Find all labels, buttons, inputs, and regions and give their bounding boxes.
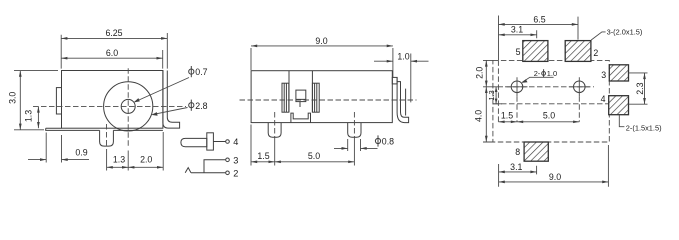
- right rail view2: [312, 83, 319, 112]
- pin B centerline: [353, 112, 355, 141]
- dim 6.25: [61, 28, 167, 69]
- center block view2: [296, 90, 306, 107]
- internal vertical left view2: [288, 71, 290, 113]
- top right tab view2: [392, 77, 397, 84]
- dim 9.0 bottom: [499, 145, 609, 187]
- svg-text:2.0: 2.0: [140, 154, 152, 164]
- svg-text:3.1: 3.1: [511, 25, 523, 35]
- right bracket view2: [397, 77, 409, 122]
- dim 4.0 left: [473, 87, 493, 142]
- svg-text:3-(2.0x1.5): 3-(2.0x1.5): [607, 28, 643, 37]
- pad 2: [565, 41, 591, 62]
- bottom flange view1: [46, 128, 163, 130]
- svg-text:0.8: 0.8: [382, 137, 394, 147]
- body outline view2: [251, 71, 392, 123]
- svg-text:3.0: 3.0: [8, 92, 18, 104]
- svg-text:1.0: 1.0: [547, 69, 557, 78]
- svg-text:2.3: 2.3: [635, 82, 645, 94]
- dim 6.5: [499, 14, 579, 60]
- label 3-(2.0x1.5) with leader: [591, 28, 642, 40]
- svg-text:0.9: 0.9: [75, 148, 87, 158]
- centerline horizontal view2: [240, 99, 417, 101]
- pin B view2: [348, 123, 361, 138]
- svg-text:1.3: 1.3: [487, 90, 496, 100]
- svg-text:1.5: 1.5: [501, 110, 513, 120]
- pad 3: [609, 65, 628, 81]
- center pin circle phi0.7: [121, 99, 135, 113]
- dim 3.1 top: [499, 25, 537, 39]
- centerline horizontal view1: [33, 105, 186, 107]
- svg-text:2-(1.5x1.5): 2-(1.5x1.5): [626, 123, 662, 132]
- pad4 centerline dashed: [493, 103, 609, 105]
- right bracket view1: [163, 71, 180, 129]
- pin centerline view1: [106, 124, 108, 148]
- pin 2 sleeve contact: [185, 168, 238, 179]
- barrel circle phi2.8: [104, 82, 153, 131]
- left tab view1: [56, 88, 61, 114]
- svg-text:2: 2: [593, 48, 598, 58]
- svg-text:6.0: 6.0: [106, 48, 118, 58]
- dim 0.9: [28, 133, 89, 163]
- footprint dashed outline: [493, 60, 609, 142]
- hole 2: [569, 77, 590, 96]
- svg-text:2.8: 2.8: [195, 101, 207, 111]
- centerline vertical view1: [127, 68, 129, 148]
- svg-text:6.5: 6.5: [533, 14, 545, 24]
- svg-text:2: 2: [233, 169, 238, 179]
- label phi0.7 with leader: [134, 66, 208, 102]
- pin 4 plug barrel: [181, 133, 238, 150]
- dim 1.3 left: [23, 106, 39, 128]
- solder pin view1: [100, 130, 114, 146]
- internal vertical right view2: [311, 71, 313, 113]
- svg-text:3: 3: [233, 156, 238, 166]
- svg-text:4: 4: [233, 137, 238, 147]
- pad 5: [523, 41, 548, 62]
- svg-text:5.0: 5.0: [543, 110, 555, 120]
- pin 3 switch contact: [204, 156, 238, 173]
- bottom step view2: [291, 113, 311, 123]
- svg-text:4: 4: [601, 94, 606, 104]
- svg-text:3: 3: [601, 70, 606, 80]
- dim 2.3 right: [629, 73, 648, 104]
- dim 1.0: [374, 52, 429, 103]
- svg-text:1.0: 1.0: [397, 52, 409, 62]
- dim 1.3 view3: [487, 87, 502, 104]
- dim 6.0: [61, 48, 163, 68]
- hole centerline dashed: [505, 86, 594, 88]
- svg-text:1.3: 1.3: [23, 110, 33, 122]
- dim 1.5 / 5.0 view3: [498, 60, 579, 123]
- dim 9.0: [251, 36, 393, 77]
- pad 4: [609, 96, 629, 115]
- pad 8: [524, 142, 548, 161]
- svg-text:9.0: 9.0: [315, 36, 327, 46]
- label 2-phi1.0 with leader: [521, 69, 557, 83]
- svg-text:3.1: 3.1: [510, 162, 522, 172]
- svg-text:2-: 2-: [534, 69, 541, 78]
- svg-text:6.25: 6.25: [105, 28, 122, 38]
- left rail view2: [282, 83, 289, 112]
- dim 1.3 / 2.0 bottom: [107, 132, 164, 171]
- svg-text:8: 8: [515, 147, 520, 157]
- svg-text:9.0: 9.0: [549, 172, 561, 182]
- dim 3.0: [8, 71, 58, 130]
- svg-text:1.5: 1.5: [257, 151, 269, 161]
- svg-text:5: 5: [516, 47, 521, 57]
- pin A centerline: [274, 112, 276, 141]
- svg-text:2.0: 2.0: [474, 67, 484, 79]
- svg-text:1.3: 1.3: [113, 154, 125, 164]
- body outline view1: [62, 71, 163, 129]
- svg-text:5.0: 5.0: [308, 151, 320, 161]
- label 2-(1.5x1.5) with leader: [619, 115, 661, 132]
- pin A view2: [268, 123, 281, 138]
- dim phi0.8: [334, 135, 394, 151]
- svg-text:4.0: 4.0: [473, 110, 483, 122]
- dim 3.1 bottom: [499, 162, 537, 174]
- svg-text:0.7: 0.7: [195, 67, 207, 77]
- dim 1.5 / 5.0 view2: [251, 125, 354, 166]
- hole 1: [507, 77, 528, 96]
- dim 2.0 left: [474, 60, 503, 86]
- label phi2.8 with leader: [151, 100, 207, 116]
